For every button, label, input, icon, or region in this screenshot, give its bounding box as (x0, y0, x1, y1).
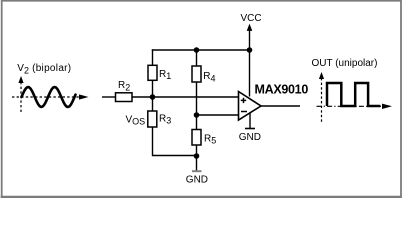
svg-text:MAX9010: MAX9010 (255, 83, 309, 97)
wire: R1 column upper segment (152, 49, 154, 65)
wire: R5 bottom to bottom junction (196, 145, 198, 156)
node V2 input axes: vertical dashed axis (18, 76, 23, 114)
VCC supply arrow (241, 13, 262, 50)
wire: R4 column upper segment (196, 50, 198, 66)
resistor R2 (116, 93, 133, 102)
ground (bottom) (186, 156, 208, 186)
junction node at R2/R1/R3 (150, 94, 156, 100)
node V2 input axes: horizontal dashed axis with arrow (12, 94, 89, 99)
wire: R2 to comparator + input (132, 96, 239, 98)
node OUT axes: horizontal dash-dot axis with arrow (317, 104, 393, 109)
sine wave (bipolar input signal) (22, 87, 76, 107)
wire: comparator output (261, 105, 300, 107)
wire: R4 bottom crossing main wire to - node (196, 82, 198, 115)
junction node: VCC rail (247, 47, 253, 53)
wire: junction down to R3 (152, 97, 154, 111)
ground (op-amp) (239, 113, 261, 143)
junction node at bottom GND (194, 153, 200, 159)
svg-text:GND: GND (186, 175, 208, 186)
svg-text:R3: R3 (159, 113, 171, 125)
wire: R3 bottom L-bend to bottom junction (153, 127, 197, 156)
wire: VCC down into comparator (249, 50, 251, 97)
pin + symbol (241, 98, 246, 103)
node OUT axes: vertical dashed axis (319, 72, 324, 122)
svg-text:OUT (unipolar): OUT (unipolar) (312, 58, 378, 69)
resistor R4 (192, 66, 201, 82)
resistor R1 (148, 65, 157, 80)
resistor R5 (192, 130, 201, 146)
resistor R3 (148, 111, 157, 127)
svg-text:R2: R2 (118, 80, 130, 92)
op-amp U1 (comparator triangle) (239, 92, 262, 121)
svg-text:VOS: VOS (126, 114, 146, 126)
junction node at - input (194, 112, 200, 118)
square wave (unipolar output signal) (327, 83, 380, 106)
svg-text:VCC: VCC (241, 13, 262, 24)
wire: - input to comparator (197, 114, 239, 116)
top rail wire (R1/R4 tops to VCC) (152, 49, 250, 51)
svg-text:GND: GND (239, 132, 261, 143)
svg-text:R5: R5 (204, 133, 216, 145)
wire: R1 bottom to main wire (152, 80, 154, 97)
wire: node down to R5 (196, 115, 198, 130)
svg-text:R4: R4 (203, 71, 215, 83)
wire: input to R2 (102, 96, 116, 98)
pin - symbol (241, 111, 247, 113)
svg-text:R1: R1 (159, 69, 171, 81)
junction node: top rail at R4 (194, 47, 200, 53)
svg-text:V2 (bipolar): V2 (bipolar) (17, 63, 71, 75)
